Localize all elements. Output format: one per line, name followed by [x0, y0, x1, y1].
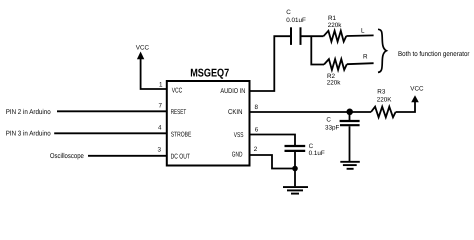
svg-text:220K: 220K: [377, 96, 393, 103]
svg-text:L: L: [361, 27, 365, 34]
resistor R3 zigzag: [371, 107, 396, 118]
svg-text:RESET: RESET: [171, 109, 187, 116]
svg-text:6: 6: [255, 126, 259, 133]
svg-text:MSGEQ7: MSGEQ7: [190, 67, 229, 79]
svg-text:R: R: [363, 54, 368, 61]
svg-text:DC OUT: DC OUT: [171, 153, 191, 160]
node junction dot GND: [292, 166, 298, 172]
svg-text:VCC: VCC: [136, 45, 150, 52]
svg-text:8: 8: [255, 104, 259, 111]
capacitor C 33pF plates: [340, 120, 360, 122]
wire junction to ground: [294, 169, 296, 187]
wire R1 to L: [346, 34, 373, 37]
wire cap to R1: [301, 35, 324, 37]
svg-text:AUDIO IN: AUDIO IN: [220, 88, 245, 95]
svg-text:R3: R3: [377, 88, 386, 95]
wire PIN2 to RESET pin 7: [57, 110, 167, 112]
brace both outputs: [378, 29, 386, 72]
svg-text:VSS: VSS: [234, 132, 244, 139]
svg-text:C: C: [326, 117, 331, 124]
power VCC (left) arrow symbol: [137, 52, 144, 60]
svg-text:STROBE: STROBE: [171, 132, 192, 139]
node junction to R2 branch: [311, 36, 324, 64]
svg-text:VCC: VCC: [410, 86, 424, 93]
svg-text:Oscilloscope: Oscilloscope: [50, 152, 84, 160]
wire AUDIO IN up to coupling cap: [250, 36, 292, 91]
svg-text:7: 7: [158, 103, 162, 110]
wire VCC arrow to pin 1: [141, 59, 167, 90]
wire 33pF cap to ground: [349, 126, 351, 161]
wire Oscilloscope to DC OUT pin 3: [88, 155, 167, 157]
op IC U1 MSGEQ7 body: [167, 81, 250, 166]
svg-text:3: 3: [157, 147, 161, 154]
svg-text:CKIN: CKIN: [228, 109, 243, 116]
svg-text:220k: 220k: [327, 80, 342, 87]
svg-text:VCC: VCC: [172, 88, 183, 95]
wire GND pin 2 to junction: [250, 155, 296, 169]
ground (under 33pF): [340, 161, 360, 163]
wire 0.1uF cap to junction: [294, 152, 296, 169]
svg-text:220k: 220k: [328, 22, 343, 29]
wire R3 to VCC: [396, 101, 415, 112]
wire PIN3 to STROBE pin 4: [54, 132, 167, 134]
node junction dot CKIN: [346, 109, 353, 116]
wire R2 to R: [347, 62, 374, 65]
svg-text:R1: R1: [328, 15, 337, 22]
wire CKIN pin 8 to R3: [250, 111, 372, 113]
svg-text:1: 1: [159, 82, 163, 89]
wire junction down to 33pF cap: [349, 112, 351, 120]
svg-text:33pF: 33pF: [325, 125, 340, 132]
svg-text:Both to function generator: Both to function generator: [398, 50, 470, 58]
capacitor C 0.01uF plates: [290, 27, 292, 45]
capacitor C 0.1uF plates: [285, 145, 306, 147]
svg-text:C: C: [286, 9, 291, 16]
power VCC (right) arrow symbol: [411, 95, 419, 102]
svg-text:2: 2: [254, 146, 258, 153]
svg-text:PIN 3 in Arduino: PIN 3 in Arduino: [6, 129, 51, 137]
svg-text:4: 4: [158, 125, 162, 132]
ground (under 0.1uF junction): [283, 186, 308, 188]
svg-text:GND: GND: [232, 152, 243, 159]
resistor R1 zigzag: [324, 31, 347, 42]
svg-text:0.01uF: 0.01uF: [286, 17, 306, 24]
svg-text:PIN 2 in Arduino: PIN 2 in Arduino: [6, 108, 51, 116]
svg-text:C: C: [309, 143, 314, 150]
svg-text:0.1uF: 0.1uF: [309, 150, 325, 157]
resistor R2 zigzag: [324, 59, 347, 70]
wire VSS pin 6 to bypass cap: [250, 135, 296, 146]
